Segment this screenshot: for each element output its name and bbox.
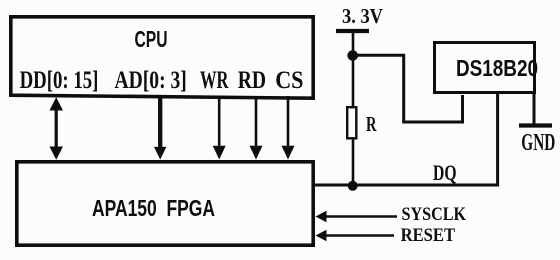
svg-text:GND: GND — [521, 130, 555, 156]
signal WR wire — [218, 96, 221, 148]
wire DQ net from FPGA to DS18B20 — [315, 184, 498, 187]
svg-text:CS: CS — [275, 65, 303, 94]
svg-text:WR: WR — [200, 65, 229, 94]
signal SYSCLK wire — [322, 215, 397, 217]
wire DS18B20 GND pin — [533, 94, 536, 125]
signal RD wire — [255, 96, 258, 148]
resistor R — [347, 107, 356, 138]
signal RD arrowhead — [250, 146, 263, 160]
svg-text:R: R — [366, 112, 377, 136]
bus DD arrowhead down — [49, 147, 63, 160]
bus DD arrowhead up — [49, 97, 63, 110]
power rail 3.3V bar — [336, 29, 369, 33]
svg-text:AD[0: 3]: AD[0: 3] — [115, 65, 187, 94]
signal RESET arrowhead — [316, 230, 327, 242]
signal CS wire — [287, 96, 290, 148]
svg-text:CPU: CPU — [135, 26, 168, 52]
DS18B20 box — [435, 43, 535, 93]
CPU box — [11, 17, 313, 98]
svg-text:DD[0: 15]: DD[0: 15] — [20, 65, 99, 94]
junction node at 3.3V branch — [347, 50, 358, 61]
wire 3.3V branch to DS18B20 VDD pin — [353, 55, 463, 122]
svg-text:RD: RD — [238, 65, 266, 94]
svg-text:APA150 FPGA: APA150 FPGA — [92, 195, 215, 221]
signal WR arrowhead — [213, 146, 226, 160]
bus DD double arrow wire — [55, 107, 58, 150]
svg-text:RESET: RESET — [401, 225, 456, 246]
signal RESET wire — [322, 234, 394, 236]
signal CS arrowhead — [282, 146, 295, 160]
svg-text:3. 3V: 3. 3V — [342, 4, 383, 28]
FPGA box — [17, 162, 313, 245]
bus AD arrowhead — [154, 147, 166, 160]
wire DS18B20 DQ pin — [496, 94, 499, 187]
wire resistor to DQ node — [352, 138, 355, 186]
wire power rail to resistor — [352, 31, 355, 107]
signal SYSCLK arrowhead — [316, 211, 327, 223]
svg-text:DS18B20: DS18B20 — [456, 55, 538, 81]
svg-text:SYSCLK: SYSCLK — [402, 204, 467, 225]
ground bar — [519, 123, 552, 127]
junction node on DQ net — [348, 181, 358, 191]
svg-text:DQ: DQ — [433, 160, 457, 185]
bus AD wire — [158, 96, 162, 149]
